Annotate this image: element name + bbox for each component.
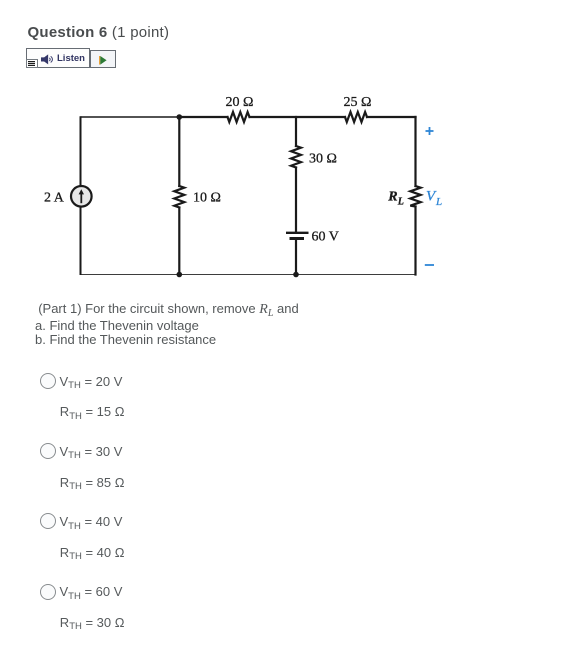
svg-text:L: L xyxy=(397,197,404,208)
svg-text:R: R xyxy=(387,190,397,205)
wire top-left thin segment xyxy=(81,116,180,118)
option 4 line R xyxy=(60,615,125,630)
svg-text:25 Ω: 25 Ω xyxy=(344,95,372,110)
battery V1 60V long plate xyxy=(286,232,309,234)
description line 1 xyxy=(38,301,299,318)
wire right vertical lower xyxy=(414,207,416,275)
svg-text:30 Ω: 30 Ω xyxy=(309,151,337,166)
play triangle xyxy=(99,56,107,65)
wire top segment to 20ohm xyxy=(179,116,227,118)
option 2 radio xyxy=(40,443,56,459)
resistor 25ohm horizontal xyxy=(345,112,367,122)
resistor 30ohm vertical xyxy=(291,146,301,168)
description line b xyxy=(35,332,216,347)
circuit schematic xyxy=(30,85,460,295)
description line a xyxy=(35,318,199,333)
svg-text:L: L xyxy=(435,196,442,208)
resistor RL vertical xyxy=(410,186,420,207)
minus sign xyxy=(425,264,434,266)
option 2 line R xyxy=(60,475,125,490)
wire right vertical upper xyxy=(414,117,416,186)
battery V1 60V short plate xyxy=(290,237,305,240)
resistor 10ohm vertical xyxy=(174,186,184,208)
speaker icon xyxy=(41,54,54,65)
doc icon xyxy=(26,59,38,68)
wire bottom thin xyxy=(81,274,416,276)
svg-text:10 Ω: 10 Ω xyxy=(193,190,221,205)
option 1 radio xyxy=(40,373,56,389)
wire left vertical xyxy=(80,116,82,275)
resistor R 20ohm horizontal xyxy=(228,112,250,122)
wire branch 10ohm lower xyxy=(178,208,180,275)
wire 30ohm to battery xyxy=(295,168,297,233)
wire battery to bottom xyxy=(295,239,297,275)
node dot bottom-middle junction xyxy=(293,272,299,278)
wire top-middle segment xyxy=(250,116,346,118)
current source I1 2A xyxy=(71,186,92,207)
listen label xyxy=(57,53,85,64)
option 4 line V xyxy=(60,584,123,599)
option 3 line R xyxy=(60,545,125,560)
svg-text:20 Ω: 20 Ω xyxy=(226,95,254,110)
node dot top-left junction xyxy=(177,114,183,120)
svg-text:60 V: 60 V xyxy=(312,229,339,244)
option 1 line V xyxy=(60,374,123,389)
listen button group xyxy=(26,48,90,68)
option 2 line V xyxy=(60,444,123,459)
question header xyxy=(28,24,170,41)
plus sign xyxy=(426,127,434,135)
option 1 line R xyxy=(60,404,125,419)
wire branch mid upper xyxy=(295,117,297,146)
svg-text:2 A: 2 A xyxy=(44,190,65,205)
node dot bottom-left junction xyxy=(177,272,183,278)
option 3 radio xyxy=(40,513,56,529)
option 3 line V xyxy=(60,514,123,529)
option 4 radio xyxy=(40,584,56,600)
wire top-right segment xyxy=(367,116,416,118)
wire branch 10ohm upper xyxy=(178,117,180,186)
